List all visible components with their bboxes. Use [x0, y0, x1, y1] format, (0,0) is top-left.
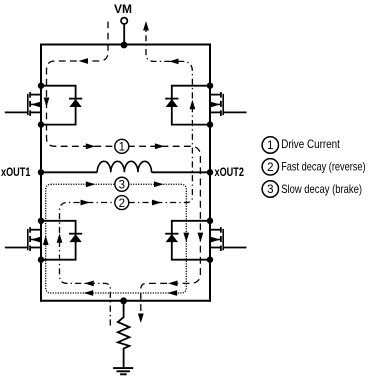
svg-text:1: 1 — [267, 140, 273, 152]
diode D2 body diode of Q2 — [165, 86, 210, 125]
legend item 1: Drive Current — [262, 137, 340, 153]
svg-text:xOUT2: xOUT2 — [215, 167, 244, 179]
svg-text:VM: VM — [114, 4, 132, 16]
resistor R sense — [118, 301, 130, 368]
diode D1 body diode of Q1 — [41, 86, 82, 125]
node 3: slow decay label circle — [115, 177, 129, 191]
arrow: path2 left on top run — [169, 59, 179, 65]
legend item 3: Slow decay (brake) — [262, 181, 362, 197]
node: Q4 source dot — [207, 257, 213, 263]
arrow: path3 left on bottom run near — [84, 290, 94, 296]
node: Q2 source dot — [207, 121, 213, 127]
VM terminal circle — [121, 18, 127, 24]
arrow: path1 down to sense resistor (end) — [138, 314, 144, 324]
legend item 2: Fast decay (reverse) — [262, 159, 366, 175]
arrow: path1 right after label — [155, 143, 165, 149]
arrow: path3 down through Q4 — [183, 233, 189, 243]
node 2: fast decay label circle — [115, 196, 129, 210]
node 1: drive current label circle — [115, 139, 129, 153]
diode D4 body diode of Q4 — [165, 221, 210, 260]
arrow: path2 right before label — [81, 200, 91, 206]
arrow: path2 right after label — [152, 200, 162, 206]
current path 1: drive current (dashed) — [47, 22, 201, 316]
svg-text:2: 2 — [119, 198, 125, 210]
svg-text:3: 3 — [267, 184, 273, 196]
wire: left half-bridge bus — [40, 44, 42, 302]
transistor Q1 high-side left (N-MOSFET) — [5, 92, 41, 116]
node: Q4 drain dot (xOUT2 side) — [207, 218, 213, 224]
wire: right half-bridge bus — [209, 44, 211, 302]
arrow: path2 up to VM (end) — [143, 21, 149, 31]
arrow: path1 left on top run — [79, 58, 89, 64]
wire: bottom rail to sense node — [40, 300, 211, 302]
wire: VM stem — [123, 24, 125, 45]
transistor Q4 low-side right (N-MOSFET) — [210, 227, 247, 251]
node: Q3 source dot — [38, 257, 44, 263]
transistor Q2 high-side right (N-MOSFET) — [210, 92, 247, 116]
node: Q3 drain dot (xOUT1 side) — [38, 218, 44, 224]
node: VM junction dot — [121, 42, 128, 49]
arrow: path3 left on bottom run far — [168, 290, 178, 296]
wire: xOUT1 to xOUT2 output wire with motor winding — [41, 171, 97, 173]
arrow: path3 up through Q3 — [43, 236, 49, 246]
node: Q2 drain dot — [207, 83, 213, 89]
svg-text:Slow decay (brake): Slow decay (brake) — [281, 183, 362, 196]
current path 3: slow decay brake loop (dotted) — [46, 184, 187, 293]
arrow: path1 left on bottom run — [168, 281, 178, 287]
arrow: path3 right after label — [154, 181, 164, 187]
arrow: path2 up through Q3 — [57, 233, 63, 243]
svg-text:Drive Current: Drive Current — [281, 138, 340, 151]
wire: top VM rail — [40, 44, 211, 46]
node: xOUT2 junction dot — [207, 169, 213, 175]
arrow: path2 up through Q2 — [190, 100, 196, 110]
svg-text:2: 2 — [267, 162, 273, 174]
arrow: path1 right before label — [86, 143, 96, 149]
current path 2: fast decay reverse (dash-dot) — [60, 30, 193, 326]
node: Q1 source dot — [38, 121, 44, 127]
ground — [113, 368, 133, 374]
transistor Q3 low-side left (N-MOSFET) — [5, 227, 41, 251]
diode D3 body diode of Q3 — [41, 221, 82, 260]
arrow: path2 left on bottom run — [84, 281, 94, 287]
node: xOUT1 junction dot — [38, 169, 44, 175]
node: sense junction dot on bottom rail — [120, 297, 127, 304]
arrow: path1 down through Q4 — [198, 233, 204, 243]
arrow: path3 right before label — [86, 181, 96, 187]
node: Q1 drain dot — [38, 83, 44, 89]
arrow: path1 down through Q1 — [44, 98, 50, 108]
svg-text:xOUT1: xOUT1 — [1, 167, 31, 179]
svg-text:3: 3 — [119, 179, 125, 191]
inductor L motor winding — [97, 161, 151, 172]
svg-text:1: 1 — [119, 142, 125, 154]
svg-text:Fast decay (reverse): Fast decay (reverse) — [281, 160, 366, 173]
